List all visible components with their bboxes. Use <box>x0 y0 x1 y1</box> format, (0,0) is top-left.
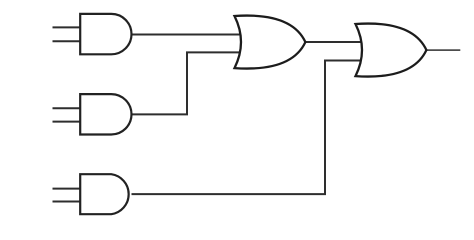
AND gate U1 input pin 2 <box>53 40 82 42</box>
OR gate U4 <box>235 16 306 69</box>
AND gate U1 input pin 1 <box>53 26 82 28</box>
AND gate U2 <box>80 94 131 134</box>
AND gate U3 <box>80 174 128 214</box>
wire U1 output to OR U4 input A <box>132 34 243 36</box>
AND gate U3 input pin 2 <box>53 201 82 203</box>
OR gate U5 <box>356 24 427 77</box>
AND gate U1 <box>80 14 131 54</box>
AND gate U2 input pin 2 <box>53 121 82 123</box>
AND gate U2 input pin 1 <box>53 107 82 109</box>
wire U5 output <box>427 49 461 51</box>
AND gate U3 input pin 1 <box>53 188 82 190</box>
wire U4 output to OR U5 input A <box>305 41 362 43</box>
wire U2 output to OR U4 input B (L-shape) <box>132 52 243 114</box>
wire U3 output to OR U5 input B (L-shape) <box>132 61 363 195</box>
